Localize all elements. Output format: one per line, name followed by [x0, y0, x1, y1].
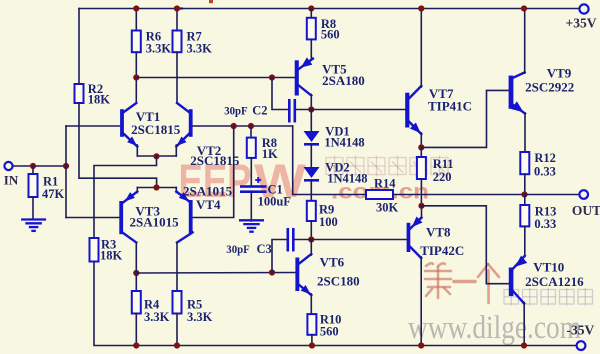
wire VT3 collector to R4 [135, 243, 137, 292]
terminal -35V [577, 341, 586, 350]
svg-text:+35V: +35V [566, 16, 597, 31]
wire +35V top rail [79, 8, 584, 10]
wire VD2 to R9 [310, 181, 312, 201]
svg-text:18K: 18K [100, 249, 123, 263]
svg-text:30pF: 30pF [224, 103, 248, 117]
wire R11 bottom lead [420, 179, 422, 206]
wire R7 top lead [176, 9, 178, 31]
junction NPN emitters [153, 153, 159, 159]
wire R10 bottom lead [311, 335, 313, 346]
transistor VT2 [189, 109, 193, 137]
svg-text:C2: C2 [252, 103, 267, 117]
svg-text:100uF: 100uF [258, 195, 292, 209]
junction R6/VT5 base [133, 74, 139, 80]
diode VD2 [304, 167, 320, 178]
junction VT7 emitter [418, 144, 424, 150]
svg-text:0.33: 0.33 [534, 164, 556, 178]
junction VT8 collector rail [418, 342, 424, 348]
svg-text:VT8: VT8 [426, 225, 451, 240]
wire R1 top lead [32, 166, 34, 174]
capacitor C1 100uF [240, 185, 267, 188]
resistor R9 [307, 201, 316, 221]
resistor R10 [307, 314, 316, 335]
svg-text:30K: 30K [376, 201, 399, 215]
junction VT2/VT4 base [231, 123, 237, 129]
svg-text:C3: C3 [257, 242, 272, 256]
wire C3 node to VT8 base [311, 239, 406, 241]
wire VT5 collector to VT7 base [311, 109, 405, 111]
resistor R13 [520, 205, 529, 226]
wire R13 to VT10 emitter [524, 226, 526, 256]
wire VT3 collector to VT6 base [136, 272, 295, 275]
svg-text:VT4: VT4 [196, 197, 221, 212]
svg-text:2SA1015: 2SA1015 [130, 215, 180, 230]
junction R8-560 rail [308, 5, 314, 11]
wire VT3 base [66, 217, 119, 219]
junction IN-R1 [30, 163, 36, 169]
svg-text:IN: IN [4, 173, 19, 188]
wire VT8 emitter to VT10 base [422, 206, 509, 284]
junction VT5 collector [308, 106, 314, 112]
transistor VT3 [119, 201, 123, 234]
wire R12 bottom lead [524, 174, 526, 194]
wire VT4 collector to R5 [176, 243, 178, 292]
ground under C1 [239, 219, 264, 221]
svg-text:100: 100 [319, 215, 338, 229]
wire VT1-VT2 emitters [137, 155, 176, 157]
wire R8-1K to C1 [250, 158, 252, 186]
resistor R8 1K [247, 138, 256, 158]
svg-text:2SC1815: 2SC1815 [131, 122, 181, 137]
wire IN node [13, 165, 66, 167]
svg-text:2SA180: 2SA180 [322, 73, 365, 88]
capacitor C2 plates [288, 99, 291, 123]
wire R8-1K top lead [250, 126, 252, 138]
transistor VT9 [509, 76, 514, 109]
transistor VT7 [405, 93, 409, 128]
svg-text:2SC180: 2SC180 [317, 274, 360, 289]
resistor R8 560 [307, 18, 316, 40]
wire VT7 emitter to VT9 base [421, 90, 508, 147]
svg-text:VT6: VT6 [320, 255, 345, 270]
junction IN-bases [63, 163, 69, 169]
terminal OUT [579, 190, 588, 199]
wire -35V bottom rail [94, 262, 577, 346]
junction R4 rail [133, 342, 139, 348]
resistor R12 [520, 152, 529, 174]
junction R5 rail [174, 342, 180, 348]
diode VD1 [304, 131, 320, 142]
wire VD1 to VD2 [310, 145, 312, 167]
svg-text:VT10: VT10 [533, 260, 564, 275]
wire R6 top lead [135, 9, 137, 31]
junction VT6 base / C3 [269, 269, 275, 275]
svg-text:3.3K: 3.3K [187, 41, 213, 55]
svg-text:VT9: VT9 [547, 66, 572, 81]
svg-text:-35V: -35V [567, 323, 595, 338]
svg-text:R14: R14 [374, 177, 396, 191]
wire R11 top lead [420, 147, 422, 157]
junction R8 1K top [248, 123, 254, 129]
svg-text:R11: R11 [433, 157, 454, 171]
wire C2 right lead [296, 109, 311, 111]
wire to OUT terminal [525, 194, 580, 196]
wire VT1 base [66, 125, 120, 127]
junction R6 rail [133, 5, 139, 11]
transistor VT5 [295, 60, 299, 95]
wire R9 to VT8 base node [310, 221, 312, 240]
svg-text:560: 560 [320, 325, 339, 339]
wire VT5 collector to VD1 [310, 110, 312, 132]
wire R8-560 top lead [310, 9, 312, 18]
svg-text:0.33: 0.33 [534, 217, 556, 231]
svg-text:TIP42C: TIP42C [420, 243, 464, 258]
wire C1 bottom lead [250, 193, 252, 221]
junction R7 rail [174, 5, 180, 11]
svg-text:1K: 1K [262, 147, 278, 161]
wire R4 bottom lead [135, 314, 137, 346]
resistor R11 [417, 157, 426, 179]
svg-text:18K: 18K [88, 93, 111, 107]
junction VT3 collector / VT6 base [133, 270, 139, 276]
watermark red characters di-yi-ge [425, 263, 499, 303]
wire IN to VT1/VT3 bases [65, 126, 67, 218]
wire R7 to VT2 collector [176, 52, 178, 103]
watermark faint chinese chars (drawn as squiggles) [326, 156, 343, 177]
junction VT8 emitter [418, 203, 424, 209]
junction OUT node [521, 191, 527, 197]
wire C3 left lead [272, 240, 287, 273]
transistor VT10 [509, 268, 514, 297]
wire R8-560 to VT5 emitter [310, 39, 312, 59]
wire VT3-VT4 emitters [137, 187, 176, 189]
junction VT10 collector rail [521, 342, 527, 348]
junction R10 rail [309, 342, 315, 348]
wire VT1 collector to VT5 base [136, 77, 295, 79]
transistor VT8 [407, 223, 411, 252]
svg-text:3.3K: 3.3K [144, 310, 170, 324]
wire R13 top lead [524, 195, 526, 206]
svg-text:2SCA1216: 2SCA1216 [525, 274, 584, 289]
svg-text:1N4148: 1N4148 [327, 172, 367, 186]
resistor R3 [90, 238, 99, 262]
junction VT7 collector rail [418, 5, 424, 11]
transistor VT4 [189, 200, 193, 233]
svg-text:3.3K: 3.3K [187, 310, 213, 324]
transistor VT1 [120, 109, 124, 137]
resistor R7 [173, 31, 182, 53]
svg-text:30pF: 30pF [226, 242, 250, 256]
svg-text:TIP41C: TIP41C [428, 99, 472, 114]
svg-text:220: 220 [433, 170, 452, 184]
svg-text:2SC2922: 2SC2922 [525, 80, 574, 95]
wire C3 right lead [295, 239, 312, 241]
watermark gray-blue chars dianzijishuzhan [504, 288, 519, 306]
wire VT2 base to feedback [193, 125, 293, 127]
ground under R1 [21, 218, 46, 220]
resistor R6 [132, 31, 141, 53]
resistor R4 [132, 291, 141, 314]
junction VT5 base / C2 [269, 74, 275, 80]
wire VT4 base link [193, 126, 234, 218]
wire R14 to OUT node [393, 194, 525, 196]
svg-text:560: 560 [321, 28, 340, 42]
capacitor C3 plates [287, 228, 290, 252]
wire feedback from VT2 base [293, 126, 366, 195]
wire C2 left lead [272, 78, 288, 110]
wire R1 bottom lead [32, 197, 34, 219]
junction VT6 collector node [308, 236, 314, 242]
wire emitters to R3 [94, 156, 157, 238]
terminal IN [4, 162, 12, 170]
resistor R2 [75, 84, 84, 103]
svg-text:2SC1815: 2SC1815 [190, 153, 240, 168]
terminal +35V [579, 4, 588, 13]
svg-text:www.dilge.com: www.dilge.com [408, 310, 581, 346]
svg-text:3.3K: 3.3K [146, 41, 172, 55]
transistor VT6 [295, 258, 299, 292]
junction PNP emitters [153, 184, 159, 190]
svg-text:R12: R12 [534, 151, 556, 165]
wire R6 to VT1 collector [135, 52, 137, 103]
svg-text:47K: 47K [42, 187, 65, 201]
resistor R5 [173, 291, 182, 314]
wire R2 to PNP emitter node [79, 103, 157, 188]
junction VT9 collector rail [521, 5, 527, 11]
wire R2 top lead [78, 9, 80, 85]
wire R5 bottom lead [176, 314, 178, 346]
resistor R14 30K [366, 190, 393, 199]
resistor R1 [29, 174, 38, 197]
svg-text:1N4148: 1N4148 [324, 136, 364, 150]
stray red scan mark top [209, 0, 213, 3]
svg-text:OUT: OUT [572, 203, 600, 218]
